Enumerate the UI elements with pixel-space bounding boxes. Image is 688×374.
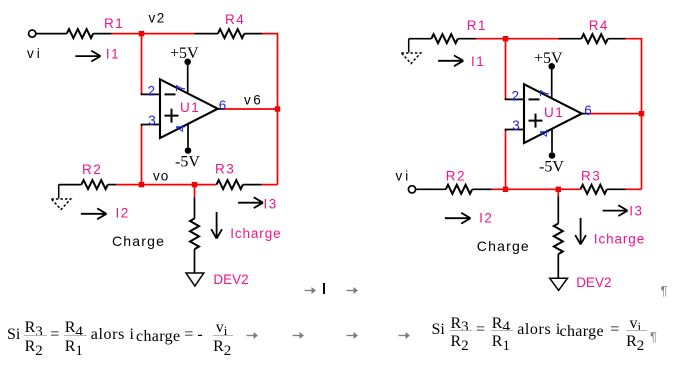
resistor R3 xyxy=(217,180,243,189)
wire xyxy=(194,249,196,272)
wire xyxy=(607,188,626,190)
wire to right rail xyxy=(262,34,278,185)
wire vo net xyxy=(116,184,217,186)
node charge junction right xyxy=(556,187,561,192)
svg-text:R3: R3 xyxy=(215,162,235,177)
wire xyxy=(458,38,476,40)
resistor charge (vertical) xyxy=(190,219,199,250)
resistor R3 right xyxy=(581,185,607,194)
wire v2 net xyxy=(112,33,195,35)
svg-text:Icharge: Icharge xyxy=(594,232,645,247)
ground DEV2 right xyxy=(550,278,568,290)
resistor R2 right xyxy=(446,185,472,194)
svg-text:7: 7 xyxy=(173,84,188,91)
svg-text:-5V: -5V xyxy=(175,154,200,171)
svg-text:R4: R4 xyxy=(589,18,609,33)
+5V supply wire right xyxy=(551,69,553,99)
op-amp U1 right xyxy=(524,84,582,143)
FORMULA RIGHT: Si R3/R2 = R4/R1 alors icharge = vi/R2 xyxy=(432,322,445,338)
pilcrow after right formula xyxy=(650,330,657,343)
wire xyxy=(194,198,196,219)
wire to pin2 right xyxy=(505,39,507,98)
node v6 junction right xyxy=(639,111,644,116)
svg-text:v2: v2 xyxy=(149,11,166,26)
-5V supply wire xyxy=(187,124,189,147)
svg-text:Charge: Charge xyxy=(112,233,165,249)
svg-text:U1: U1 xyxy=(544,105,564,120)
wire xyxy=(243,184,262,186)
svg-text:+5V: +5V xyxy=(534,50,563,67)
resistor R1 right xyxy=(431,34,457,43)
ground 0V right top xyxy=(401,39,420,64)
svg-text:I3: I3 xyxy=(629,204,643,219)
wire pin3 stub right xyxy=(506,130,525,132)
current arrow I3 right xyxy=(603,205,628,216)
wire v6 net xyxy=(224,108,278,110)
current arrow Icharge right xyxy=(575,218,586,245)
op-amp plus input mark right xyxy=(529,114,543,128)
resistor R4 right xyxy=(581,34,607,43)
wire output stub xyxy=(218,108,224,110)
wire xyxy=(557,197,559,224)
wire xyxy=(36,33,67,35)
middle tab mark arrow 2 xyxy=(346,285,359,296)
svg-text:+5V: +5V xyxy=(170,45,199,62)
tab mark arrows before right formula xyxy=(346,330,359,341)
svg-text:3: 3 xyxy=(148,113,156,128)
wire xyxy=(93,33,111,35)
svg-text:2: 2 xyxy=(148,84,156,99)
svg-text:R4: R4 xyxy=(225,12,245,27)
wire xyxy=(626,188,642,190)
pilcrow right circuit xyxy=(661,284,668,297)
node charge junction xyxy=(192,182,197,187)
current arrow I1 right xyxy=(438,55,463,66)
svg-text:DEV2: DEV2 xyxy=(576,275,611,290)
svg-text:I2: I2 xyxy=(116,205,130,220)
op-amp minus input mark xyxy=(165,93,176,95)
input terminal vi xyxy=(29,30,36,37)
wire xyxy=(108,184,116,186)
svg-text:Charge: Charge xyxy=(477,238,530,254)
current arrow I3 xyxy=(238,197,263,208)
svg-text:4: 4 xyxy=(173,125,188,132)
svg-text:vi: vi xyxy=(27,46,43,61)
node junction right bottom xyxy=(503,187,508,192)
svg-text:R2: R2 xyxy=(446,168,466,183)
svg-text:R2: R2 xyxy=(82,162,102,177)
svg-text:I1: I1 xyxy=(106,47,120,62)
resistor R1 xyxy=(67,29,93,38)
+5V terminal dot right xyxy=(548,63,555,70)
op-amp plus input mark xyxy=(165,109,179,123)
current arrow Icharge xyxy=(211,212,222,239)
wire xyxy=(244,33,262,35)
wire xyxy=(472,188,492,190)
input terminal vi right xyxy=(408,186,415,193)
svg-text:vo: vo xyxy=(153,169,169,184)
svg-text:2: 2 xyxy=(512,89,520,104)
wire net xyxy=(492,188,581,190)
middle tab mark arrow xyxy=(304,285,317,296)
wire xyxy=(557,254,559,278)
svg-text:7: 7 xyxy=(537,89,552,96)
svg-text:4: 4 xyxy=(537,130,552,137)
svg-text:6: 6 xyxy=(219,98,227,113)
tab mark arrows after left formula xyxy=(246,330,259,341)
svg-text:I2: I2 xyxy=(479,210,493,225)
wire output stub right xyxy=(582,113,588,115)
svg-text:v6: v6 xyxy=(244,93,263,108)
svg-text:R1: R1 xyxy=(467,18,487,33)
svg-text:6: 6 xyxy=(584,103,592,118)
wire pin2 stub right xyxy=(506,98,525,99)
svg-text:I1: I1 xyxy=(471,54,485,69)
-5V supply wire right xyxy=(551,129,553,152)
wire xyxy=(409,38,432,40)
wire vo to pin3 xyxy=(141,126,143,185)
+5V terminal dot xyxy=(184,59,191,66)
current arrow I2 xyxy=(81,208,107,219)
wire xyxy=(195,33,218,35)
ground 0V left xyxy=(51,185,70,210)
node junction right top xyxy=(503,36,508,41)
wire v2 to pin2 xyxy=(141,34,143,93)
resistor R2 xyxy=(81,180,107,189)
svg-text:-5V: -5V xyxy=(539,159,564,176)
current arrow I1 xyxy=(75,51,100,62)
wire xyxy=(59,184,82,186)
+5V supply wire xyxy=(187,64,189,94)
current arrow I2 right xyxy=(445,213,471,224)
node v2 junction xyxy=(139,31,144,36)
svg-text:Icharge: Icharge xyxy=(230,226,281,241)
FORMULA LEFT: Si R3/R2 = R4/R1 alors icharge = - vi/R2 xyxy=(7,327,20,343)
wire xyxy=(416,188,446,190)
op-amp minus input mark right xyxy=(529,98,540,100)
svg-text:3: 3 xyxy=(512,118,520,133)
wire xyxy=(262,184,278,186)
-5V terminal dot xyxy=(185,147,192,154)
wire xyxy=(558,38,581,40)
wire to pin3 right xyxy=(505,131,507,189)
svg-text:U1: U1 xyxy=(180,100,200,115)
wire charge branch right xyxy=(557,189,559,196)
wire pin2 stub xyxy=(142,93,161,94)
wire xyxy=(608,38,626,40)
svg-text:DEV2: DEV2 xyxy=(213,272,248,287)
wire pin3 stub xyxy=(142,125,161,127)
node v6 junction xyxy=(275,106,280,111)
wire to right rail xyxy=(626,39,642,190)
svg-text:R1: R1 xyxy=(104,16,124,31)
resistor charge right (vertical) xyxy=(554,224,563,255)
svg-text:vi: vi xyxy=(396,168,412,183)
op-amp U1 xyxy=(160,79,218,138)
wire net xyxy=(476,38,558,40)
node vo junction xyxy=(139,182,144,187)
svg-text:I3: I3 xyxy=(264,196,278,211)
middle text cursor bar xyxy=(323,283,325,295)
-5V terminal dot right xyxy=(549,152,556,159)
wire charge branch xyxy=(194,185,196,198)
resistor R4 xyxy=(218,29,244,38)
wire v6 net right xyxy=(588,113,642,115)
svg-text:R3: R3 xyxy=(581,169,601,184)
ground DEV2 left xyxy=(186,273,204,286)
